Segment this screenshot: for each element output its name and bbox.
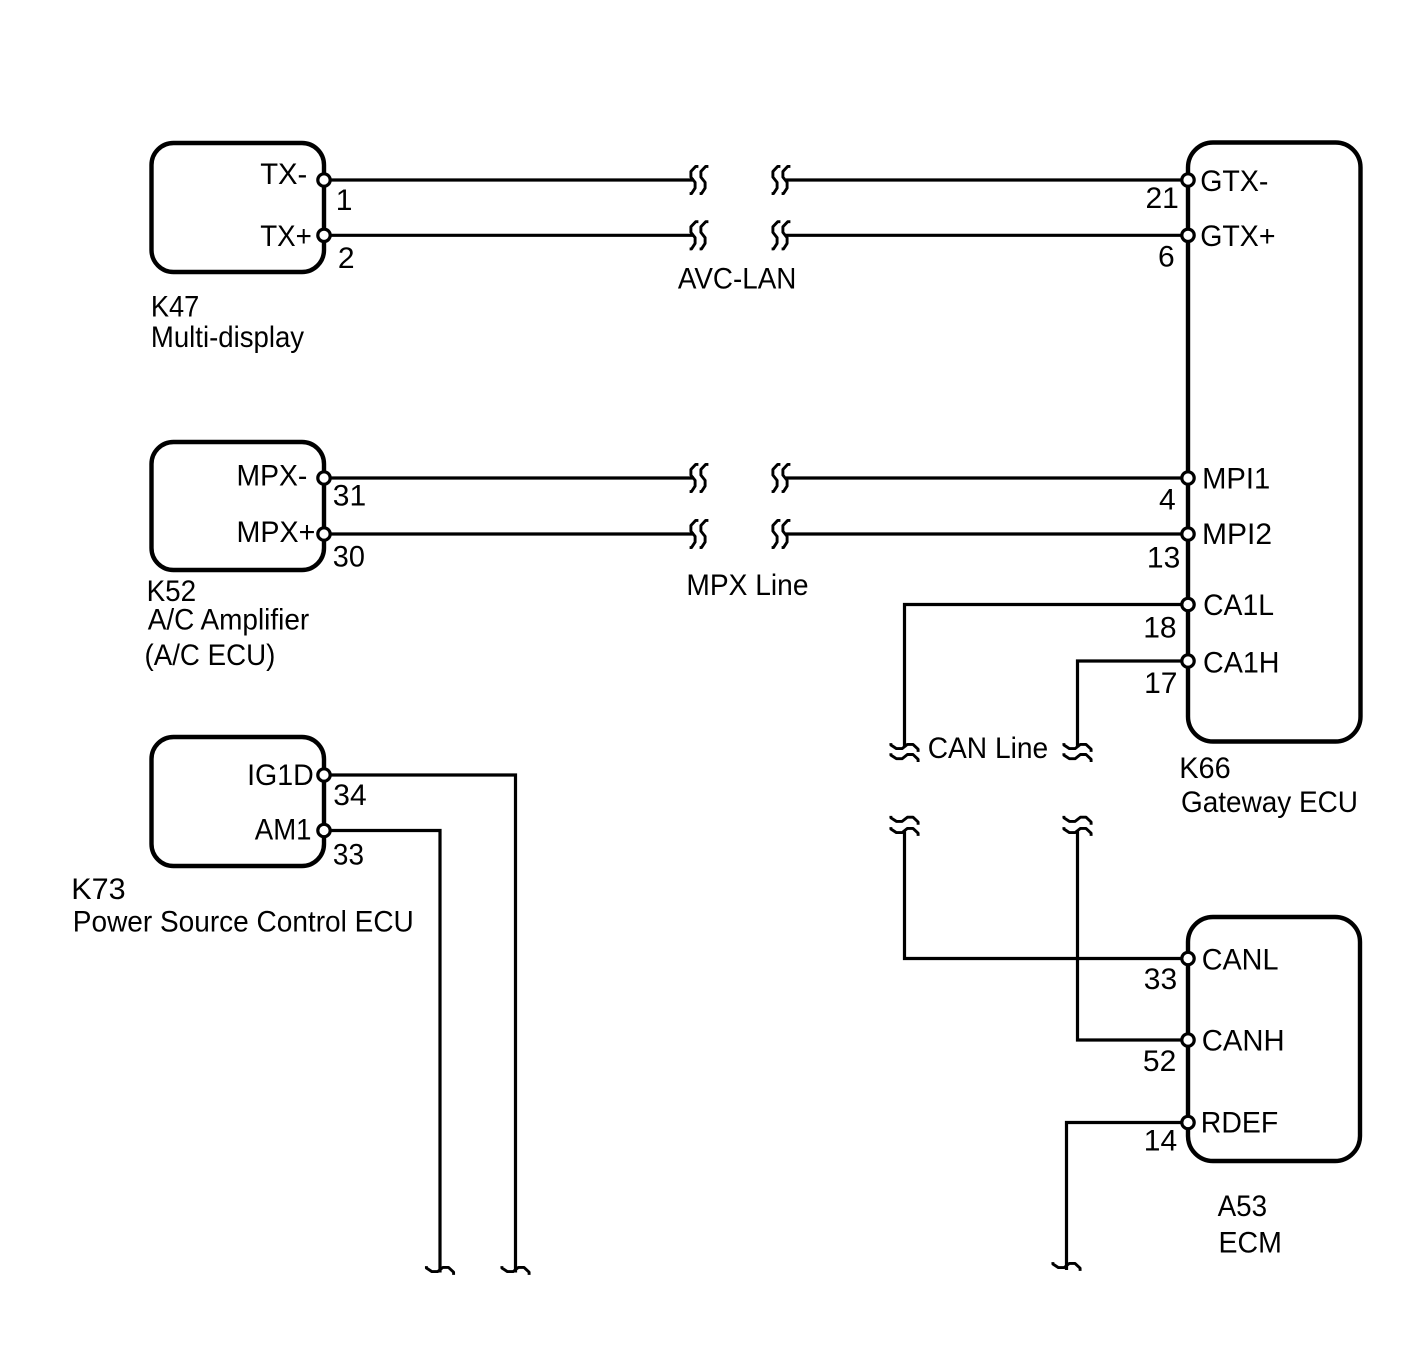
svg-text:MPI1: MPI1 [1202, 463, 1270, 496]
svg-text:K47: K47 [151, 291, 199, 324]
svg-text:1: 1 [336, 184, 353, 217]
svg-text:CANH: CANH [1202, 1025, 1285, 1058]
svg-text:MPX+: MPX+ [237, 516, 316, 549]
svg-text:30: 30 [333, 541, 365, 574]
svg-text:Power Source Control ECU: Power Source Control ECU [73, 906, 414, 939]
svg-text:K66: K66 [1179, 752, 1231, 785]
svg-text:17: 17 [1144, 667, 1177, 700]
svg-text:A/C Amplifier: A/C Amplifier [148, 604, 310, 637]
svg-text:ECM: ECM [1219, 1227, 1282, 1260]
svg-text:31: 31 [333, 480, 366, 513]
svg-text:(A/C ECU): (A/C ECU) [145, 639, 276, 672]
svg-text:IG1D: IG1D [247, 759, 314, 792]
svg-text:33: 33 [333, 838, 364, 871]
svg-text:GTX-: GTX- [1200, 165, 1268, 198]
svg-text:21: 21 [1146, 182, 1179, 215]
svg-text:MPX Line: MPX Line [686, 569, 808, 602]
svg-text:MPI2: MPI2 [1202, 518, 1272, 551]
svg-text:RDEF: RDEF [1201, 1107, 1278, 1140]
svg-text:CA1H: CA1H [1203, 646, 1280, 679]
svg-text:TX-: TX- [260, 158, 307, 191]
svg-text:13: 13 [1147, 541, 1180, 574]
svg-text:52: 52 [1143, 1045, 1176, 1078]
svg-text:18: 18 [1143, 612, 1176, 645]
svg-text:TX+: TX+ [260, 220, 312, 253]
svg-text:MPX-: MPX- [237, 460, 308, 493]
svg-text:4: 4 [1159, 483, 1176, 516]
svg-text:CANL: CANL [1202, 944, 1279, 977]
svg-text:2: 2 [338, 242, 355, 275]
svg-text:33: 33 [1144, 963, 1177, 996]
svg-text:CAN Line: CAN Line [928, 732, 1048, 765]
svg-text:6: 6 [1158, 241, 1175, 274]
svg-text:14: 14 [1144, 1124, 1177, 1157]
svg-text:CA1L: CA1L [1203, 589, 1274, 622]
svg-text:GTX+: GTX+ [1200, 220, 1275, 253]
svg-text:Gateway ECU: Gateway ECU [1181, 786, 1358, 819]
svg-text:K73: K73 [71, 873, 125, 906]
svg-text:34: 34 [333, 779, 366, 812]
svg-text:A53: A53 [1218, 1190, 1268, 1223]
svg-text:AM1: AM1 [255, 814, 312, 847]
svg-text:Multi-display: Multi-display [151, 321, 304, 354]
svg-text:AVC-LAN: AVC-LAN [678, 262, 797, 295]
